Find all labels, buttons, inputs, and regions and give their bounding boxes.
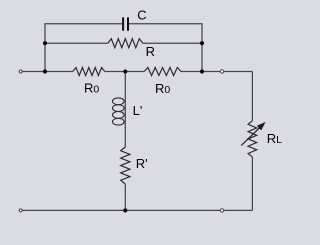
- rheostat RL zigzag: [248, 121, 257, 157]
- resistor R0 (left): [73, 68, 105, 76]
- port right bottom: [220, 209, 223, 212]
- svg-text:L': L': [133, 103, 143, 118]
- svg-text:R0: R0: [155, 81, 170, 96]
- wire bottom: [21, 209, 253, 211]
- rheostat RL arrow: [241, 123, 264, 145]
- wire middle vertical upper: [124, 72, 126, 148]
- node: middle / bottom: [123, 208, 127, 212]
- wire R branch right lead: [143, 42, 202, 44]
- node: left bus / R branch: [43, 41, 47, 45]
- wire top left segment: [45, 24, 122, 72]
- wire middle vertical lower: [124, 184, 126, 210]
- node: right bus / main: [200, 69, 204, 73]
- wire main line middle: [105, 71, 144, 73]
- resistor R: [108, 39, 143, 48]
- wire top right segment: [129, 24, 202, 72]
- terminal left top: [19, 70, 22, 73]
- node: middle / main: [123, 69, 127, 73]
- svg-text:R0: R0: [84, 80, 99, 95]
- node: right bus / R branch: [200, 41, 204, 45]
- svg-text:C: C: [137, 7, 146, 22]
- wire main line left: [21, 71, 73, 73]
- svg-text:R': R': [136, 156, 148, 171]
- resistor R0 (right): [144, 68, 181, 76]
- open terminals: [19, 70, 224, 212]
- svg-text:R: R: [146, 44, 155, 59]
- wire R branch left lead: [45, 42, 108, 44]
- node: left bus / main: [43, 69, 47, 73]
- terminal left bottom: [19, 209, 22, 212]
- resistor R': [121, 147, 130, 184]
- inductor L' loops: [113, 98, 125, 125]
- port right top: [220, 70, 223, 73]
- wire right vertical lower: [251, 157, 253, 210]
- wire right vertical upper: [251, 72, 253, 121]
- wire main line right: [181, 71, 252, 73]
- capacitor C plates: [122, 17, 129, 30]
- svg-text:RL: RL: [267, 131, 282, 146]
